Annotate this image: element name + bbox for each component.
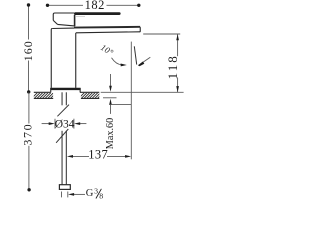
- body top edge: [52, 27, 74, 29]
- dimension 137 line right: [107, 155, 126, 157]
- supply pipe lower left line: [61, 131, 63, 185]
- counter bottom extension line: [103, 97, 117, 99]
- dimension O34 left tick: [54, 119, 56, 129]
- spout tip edge: [138, 27, 141, 32]
- dimension 137 left arrowhead: [67, 155, 73, 158]
- countertop hatching: [31, 92, 107, 99]
- supply pipe upper left line: [61, 92, 63, 105]
- dimension 182 right dot: [137, 4, 140, 7]
- G3/8 left tick: [61, 192, 63, 198]
- dimension 370 bottom dot: [27, 188, 30, 191]
- dimension 137 right arrowhead: [125, 155, 131, 158]
- dimension 160 bottom dot: [27, 90, 30, 93]
- Max.60 upper arrow stem: [110, 74, 112, 86]
- angle right leader arrow: [142, 57, 151, 63]
- dimension 160 top dot: [27, 3, 30, 6]
- dimension 118 line lower: [177, 77, 179, 92]
- dimension 370 line lower: [28, 146, 30, 190]
- supply pipe lower right line: [65, 131, 67, 185]
- lever base bottom edge: [58, 24, 75, 26]
- body left edge: [50, 29, 53, 88]
- lever top edge and left rounded corner: [53, 13, 74, 20]
- lever base right edge: [74, 15, 76, 26]
- dimension O34 left arrow: [42, 123, 50, 125]
- dimension 182 line left: [48, 4, 84, 6]
- dimension 182 line right: [107, 4, 139, 6]
- countertop top surface right: [80, 91, 99, 93]
- dimension O34 right arrow: [80, 123, 87, 125]
- hose end connector: [59, 185, 70, 190]
- svg-text:3: 3: [94, 186, 98, 195]
- dimension 182 left dot: [46, 4, 49, 7]
- svg-text:Ø34: Ø34: [55, 119, 75, 131]
- dimension 370 line upper: [28, 92, 30, 123]
- svg-text:370: 370: [21, 123, 35, 146]
- angle reference vertical line: [130, 42, 132, 160]
- dimension 160 line lower: [28, 61, 30, 92]
- base plate left side: [50, 88, 52, 92]
- spout top edge: [74, 26, 140, 29]
- Max.60 upper arrowhead: [109, 86, 112, 92]
- lever seam line: [76, 15, 85, 17]
- angle arc arrow: [112, 58, 123, 65]
- G3/8 fraction slash: [96, 189, 102, 199]
- angle 10 deg tilted line: [134, 46, 136, 64]
- base plate right side: [79, 88, 81, 92]
- dimension 118 bottom arrowhead: [176, 86, 179, 92]
- G3/8 right tick: [67, 192, 69, 198]
- supply pipe upper right line: [65, 92, 67, 105]
- svg-text:8: 8: [99, 192, 103, 200]
- lever handle grip bar: [74, 12, 121, 15]
- svg-text:Max.60: Max.60: [105, 118, 116, 149]
- G3/8 arrow: [74, 193, 86, 195]
- Max.60 lower arrowhead: [109, 99, 112, 105]
- spout outlet extension line: [143, 33, 180, 35]
- dimension 118 line upper: [177, 34, 179, 56]
- svg-text:118: 118: [165, 54, 180, 79]
- dimension 118 top arrowhead: [176, 34, 179, 40]
- body right edge: [75, 33, 77, 88]
- Max.60 lower arrow stem: [110, 105, 112, 114]
- Max.60 leader to extension line: [111, 103, 132, 105]
- dimension O34 right tick: [73, 119, 75, 129]
- counter top extension line: [101, 91, 184, 93]
- lever base chamfer: [53, 20, 57, 24]
- dimension 137 line left: [72, 155, 90, 157]
- svg-text:160: 160: [21, 40, 35, 61]
- svg-text:182: 182: [85, 0, 105, 12]
- countertop bottom surface right: [81, 97, 99, 99]
- spout bottom edge: [76, 32, 140, 33]
- countertop top surface left: [34, 91, 51, 93]
- countertop bottom surface left: [34, 97, 53, 99]
- svg-text:G: G: [86, 188, 94, 199]
- dimension 160 line upper: [28, 5, 30, 40]
- pipe break slash lower: [56, 129, 68, 143]
- base plate top: [50, 88, 80, 90]
- pipe break slash upper: [57, 105, 69, 117]
